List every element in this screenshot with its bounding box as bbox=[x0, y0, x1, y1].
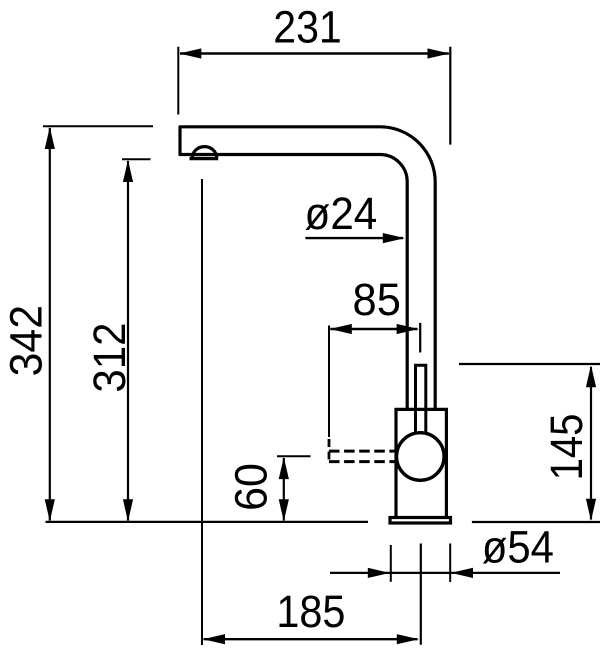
dim 231 extension left bbox=[177, 47, 179, 115]
lever rod bbox=[416, 365, 426, 432]
svg-text:145: 145 bbox=[541, 414, 592, 481]
dim o54 line bbox=[330, 572, 560, 574]
dashed outlet top bbox=[329, 450, 396, 453]
joint circle bbox=[397, 433, 445, 481]
dashed outlet left edge bbox=[328, 439, 331, 462]
dim 85 line bbox=[330, 328, 417, 330]
dim 185 extension left (spout tip line) bbox=[201, 179, 203, 645]
counter baseline right / 145 bottom extension bbox=[472, 521, 600, 523]
body bbox=[396, 409, 446, 517]
svg-text:231: 231 bbox=[273, 2, 342, 53]
dim o54 extension right bbox=[449, 544, 451, 583]
dim 312 top tick bbox=[122, 158, 151, 160]
dim 85 extension left bbox=[328, 326, 330, 438]
dim o54 extension left bbox=[390, 545, 392, 582]
base plate bbox=[390, 518, 451, 524]
counter baseline left bbox=[46, 521, 369, 523]
svg-text:342: 342 bbox=[0, 305, 51, 376]
svg-text:ø54: ø54 bbox=[482, 522, 554, 573]
faucet spout tube outline bbox=[180, 127, 435, 408]
svg-text:ø24: ø24 bbox=[305, 188, 378, 239]
dim 312 line bbox=[127, 161, 129, 521]
aerator base bar bbox=[190, 157, 219, 160]
dim 231 line bbox=[180, 52, 449, 54]
dim 342 line bbox=[49, 128, 51, 521]
dim 342 top tick bbox=[43, 125, 153, 127]
dashed outlet bottom bbox=[329, 460, 395, 463]
dim 85 extension right bbox=[419, 323, 421, 353]
svg-text:85: 85 bbox=[353, 274, 401, 325]
dim o24 leader bbox=[305, 237, 403, 239]
dim 145 line bbox=[590, 367, 592, 520]
dim 145 top extension bbox=[459, 363, 600, 365]
dim 185 line bbox=[204, 638, 418, 640]
dim 60 top tick bbox=[277, 455, 311, 457]
svg-text:312: 312 bbox=[84, 323, 135, 393]
dim 185 extension right (base centerline) bbox=[420, 544, 422, 645]
svg-text:60: 60 bbox=[226, 463, 277, 511]
aerator dome bbox=[192, 147, 216, 158]
dim 231 extension right bbox=[449, 47, 451, 145]
dim 60 line bbox=[283, 458, 285, 521]
svg-text:185: 185 bbox=[276, 586, 345, 637]
